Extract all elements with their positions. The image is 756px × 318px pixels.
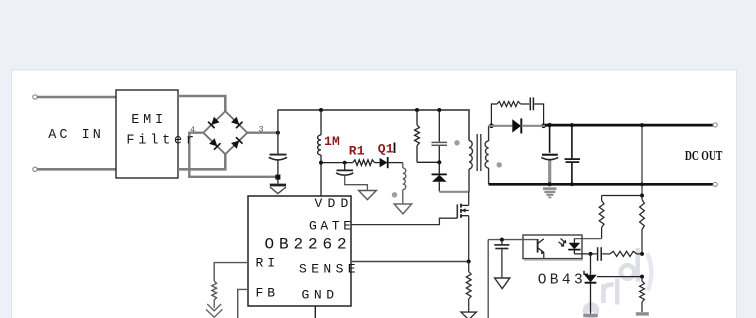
svg-text:OB2262: OB2262 — [265, 236, 352, 254]
wire C3 to ground — [345, 176, 368, 190]
wire SENSE — [352, 261, 469, 263]
watermark letter r — [604, 284, 614, 303]
node snubber left — [489, 124, 494, 129]
node bus-clampC — [437, 108, 441, 112]
comp capacitor — [591, 247, 602, 261]
watermark arc fragment — [647, 253, 651, 291]
AC line terminal bottom — [33, 167, 37, 171]
clamp resistor — [415, 110, 420, 162]
svg-text:EMI: EMI — [131, 113, 167, 128]
svg-text:Q1: Q1 — [378, 142, 394, 157]
wire EMI bottom to bridge — [178, 154, 225, 169]
wire C3 lead — [344, 163, 346, 170]
svg-text:GND: GND — [302, 288, 339, 303]
opto light arrows — [559, 239, 566, 247]
capacitor C1 bottom plate — [269, 157, 287, 160]
capacitor C3 bottom plate — [336, 173, 353, 175]
op-amp U1 OB2262 box — [248, 196, 351, 306]
ground arrow RI — [206, 300, 222, 317]
phase dot primary — [454, 140, 459, 145]
DC out terminal minus — [713, 182, 717, 186]
node C1 bottom junction — [275, 175, 280, 180]
wire clamp to drain node — [439, 191, 469, 193]
svg-text:OB43: OB43 — [538, 273, 586, 289]
aux winding L1 — [403, 163, 406, 204]
wire VDD feed — [320, 163, 322, 196]
wire divider branch — [602, 195, 642, 197]
wire bridge left vertex loop to DC minus — [189, 133, 276, 177]
primary ground symbol — [270, 185, 286, 194]
wire secondary to rectifier — [489, 125, 513, 127]
DC out terminal plus — [713, 123, 717, 127]
node opto cap tap — [500, 238, 504, 242]
watermark letter e — [585, 305, 597, 317]
transformer core — [477, 134, 481, 171]
snubber resistor — [491, 101, 529, 125]
svg-text:Filter: Filter — [126, 134, 197, 149]
rectifier diode D6 — [512, 118, 521, 133]
svg-text:R1: R1 — [349, 143, 365, 158]
earth ground C5 — [543, 187, 557, 198]
capacitor C3 top plate — [337, 169, 354, 171]
wire rectifier out — [522, 125, 548, 127]
bridge rectifier BR1 diamond — [203, 111, 247, 154]
capacitor C6 — [565, 125, 581, 184]
capacitor C5 — [541, 125, 558, 184]
node tap divider — [640, 194, 644, 198]
wire clampR to clampC — [417, 161, 439, 163]
EMI filter block — [116, 90, 178, 178]
wire C1 to ground node — [277, 161, 279, 184]
clamp capacitor — [432, 110, 448, 162]
watermark letter d — [621, 248, 638, 282]
node clamp junction — [437, 160, 441, 164]
ground pad TL431 — [583, 314, 597, 317]
diode D5 — [380, 157, 388, 168]
node rail C5 — [547, 123, 551, 127]
resistor 1M — [318, 110, 321, 163]
shunt regulator OB43 — [584, 254, 597, 314]
grey dot near aux — [392, 192, 397, 197]
wire feedback drop — [487, 240, 489, 318]
node rail bottom C6 — [570, 182, 574, 186]
ground opto cap — [495, 278, 510, 289]
node rail C6 — [570, 123, 574, 127]
clamp diode — [432, 162, 447, 191]
node TL431 cathode — [589, 252, 593, 256]
wire DC plus rail — [545, 124, 714, 127]
wire VDD node to R1 — [321, 162, 353, 164]
transformer secondary winding — [485, 126, 489, 185]
mosfet Q2 — [457, 204, 468, 219]
node ref junction — [640, 275, 644, 279]
bridge diode D1 top-left — [211, 117, 219, 125]
node sense junction — [467, 260, 471, 264]
opto filter capacitor — [494, 240, 509, 278]
capacitor C1 top plate — [270, 154, 287, 156]
opto LED — [568, 239, 580, 254]
wire to opto LED anode — [574, 238, 601, 240]
divider resistor top — [640, 196, 645, 254]
wire EMI top to bridge — [178, 96, 225, 111]
bridge diode D4 bottom-right — [231, 141, 239, 149]
wire bridge right vertex to bulk cap — [247, 131, 278, 133]
resistor RI — [212, 281, 217, 300]
node rail bottom C5 — [548, 182, 552, 186]
wire RI — [214, 263, 248, 281]
ground C3 — [359, 191, 377, 200]
AC line terminal top — [33, 95, 37, 99]
svg-text:DC OUT: DC OUT — [685, 148, 723, 163]
wire D5 to aux winding — [388, 162, 403, 164]
text cursor bar — [394, 143, 396, 154]
schematic white canvas — [12, 70, 737, 318]
wire AC top to EMI — [37, 96, 116, 99]
divider resistor bottom — [640, 277, 645, 312]
node bus-1M — [319, 108, 323, 112]
wire bus down to C1 — [277, 110, 279, 154]
svg-text:1M: 1M — [324, 134, 340, 149]
svg-text:RI: RI — [256, 256, 280, 271]
sense resistor — [466, 262, 471, 312]
transformer primary winding — [469, 141, 473, 192]
phase dot secondary — [497, 162, 502, 167]
wire drain — [468, 192, 470, 206]
resistor R1 — [353, 160, 375, 166]
node snubber right — [541, 124, 546, 129]
ground pad divider — [636, 312, 649, 315]
node RC junction — [640, 252, 644, 256]
wire output sense tap — [641, 125, 643, 195]
node tap top — [640, 123, 644, 127]
wire GND pin — [314, 306, 316, 318]
wire source to sense node — [468, 216, 470, 262]
wire FB — [238, 289, 248, 318]
node tap rail — [640, 183, 644, 187]
svg-text:SENSE: SENSE — [299, 262, 360, 277]
opto phototransistor — [538, 239, 545, 258]
wire opto input — [488, 239, 537, 241]
bridge diode D2 top-right — [231, 117, 239, 125]
node C3 tap — [343, 161, 347, 165]
svg-text:VDD: VDD — [315, 196, 354, 211]
comp resistor — [602, 251, 642, 256]
svg-text:GATE: GATE — [309, 219, 355, 234]
snubber capacitor — [530, 97, 543, 125]
node VDD junction — [319, 161, 323, 165]
wire HV top bus — [278, 110, 469, 141]
bridge diode D3 bottom-left — [209, 138, 217, 146]
wire DC minus rail — [489, 183, 715, 186]
ground aux winding — [394, 204, 411, 214]
svg-text:AC IN: AC IN — [48, 128, 104, 143]
watermark letter l — [615, 279, 620, 305]
wire GATE to mosfet — [351, 218, 457, 224]
wire R1 to D5 — [375, 162, 380, 164]
wire TL431 ref — [597, 276, 642, 278]
ground sense — [461, 312, 476, 318]
node bus-clampR — [415, 108, 419, 112]
wire opto LED cathode — [574, 253, 590, 255]
wire AC bottom to EMI — [37, 168, 116, 171]
optocoupler U2 box — [523, 235, 583, 260]
node bridge DC plus — [276, 131, 280, 135]
opto feed resistor — [599, 196, 604, 239]
svg-text:FB: FB — [256, 286, 280, 301]
